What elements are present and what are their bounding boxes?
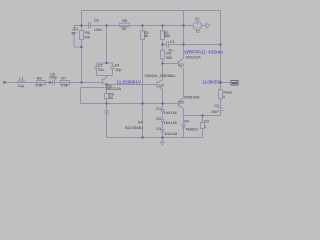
- svg-text:Q1: Q1: [179, 63, 184, 67]
- capacitor C8 plates: [53, 80, 55, 86]
- svg-text:47k: 47k: [84, 35, 90, 39]
- svg-text:10µ: 10µ: [18, 84, 25, 88]
- svg-text:D4: D4: [115, 63, 120, 67]
- svg-text:1n: 1n: [71, 31, 75, 35]
- svg-text:Q2: Q2: [179, 100, 184, 104]
- wire bias pair bottom link: [74, 46, 82, 48]
- svg-text:11.026891V: 11.026891V: [117, 80, 142, 85]
- wire Q1 collector column: [183, 11, 185, 59]
- svg-text:C2: C2: [214, 104, 219, 108]
- wire top rail: [82, 10, 221, 12]
- svg-text:C1: C1: [74, 27, 79, 31]
- wire right column mid: [220, 99, 222, 109]
- svg-text:2.2k: 2.2k: [61, 84, 68, 88]
- wire R5 bottom stub: [202, 129, 204, 138]
- svg-text:100n: 100n: [94, 28, 102, 32]
- wire left feedback column lower: [81, 40, 83, 83]
- svg-text:560: 560: [164, 34, 170, 38]
- wire Q3 collector column upper: [162, 64, 164, 81]
- svg-text:1: 1: [204, 125, 206, 129]
- wire between D2 D3: [162, 122, 164, 129]
- wire R1 column: [142, 26, 144, 32]
- diode D2: [161, 119, 165, 122]
- resistor R2 560: [161, 31, 165, 40]
- wire collector node column top: [106, 26, 108, 64]
- wire R2-R3 column: [162, 26, 164, 32]
- resistor R1 3k: [141, 31, 145, 40]
- wire left feedback column upper: [81, 11, 83, 31]
- svg-text:5: 5: [223, 95, 225, 99]
- ground right of V1: [206, 23, 210, 28]
- svg-text:Q3: Q3: [159, 84, 164, 88]
- wire ground stub: [162, 138, 164, 143]
- svg-text:R9: R9: [37, 77, 42, 81]
- svg-text:2N5109G: 2N5109G: [184, 96, 200, 100]
- svg-text:56: 56: [109, 96, 113, 100]
- resistor R8 56: [105, 94, 109, 99]
- wire collector pair left bottom: [96, 69, 98, 76]
- wire R1 column lower: [142, 40, 144, 138]
- inductor L1: [18, 81, 26, 83]
- diode D3: [161, 129, 165, 132]
- svg-text:10µ: 10µ: [115, 68, 122, 72]
- svg-text:R5: R5: [122, 19, 127, 23]
- ground bottom: [160, 142, 164, 145]
- svg-text:in: in: [3, 80, 7, 85]
- resistor R7 2.2k: [61, 81, 70, 85]
- svg-text:TA8819: TA8819: [185, 127, 198, 131]
- capacitor C6 plates: [89, 22, 91, 29]
- wire cap branch top stub: [73, 26, 75, 30]
- svg-text:R2: R2: [204, 120, 209, 124]
- svg-text:2N2222A: 2N2222A: [185, 56, 201, 60]
- wire C2 bottom stub: [220, 111, 222, 116]
- svg-text:2.2k: 2.2k: [35, 83, 42, 87]
- wire mid row y44 right: [169, 44, 221, 46]
- resistor R5b 1: [201, 123, 205, 129]
- wire base rail y103: [81, 103, 179, 105]
- wire left lower rect column: [80, 88, 82, 104]
- wire mid row y44 left: [163, 44, 167, 46]
- wire collector pair left stub: [96, 63, 98, 67]
- svg-text:560: 560: [166, 56, 172, 60]
- svg-text:V1: V1: [195, 17, 200, 21]
- wire R5 column: [202, 116, 204, 123]
- node dots: [49, 25, 222, 139]
- wire out stub: [221, 82, 232, 84]
- capacitor C5 plates: [94, 67, 99, 69]
- diode D1: [161, 109, 165, 112]
- zener D5: [104, 111, 109, 115]
- svg-text:C5: C5: [98, 63, 103, 67]
- capacitor C1 5n plates: [167, 42, 169, 48]
- transistor Q3: [157, 80, 163, 89]
- transistor Q1: [178, 59, 183, 69]
- wire right column upper: [220, 11, 222, 90]
- wire R2-R3 column mid: [162, 40, 164, 51]
- wire rect top row: [81, 87, 107, 89]
- svg-text:D3: D3: [156, 127, 161, 131]
- svg-text:D4: D4: [138, 120, 143, 124]
- resistor R9 2.2k: [37, 81, 46, 85]
- wire Q2 emitter column: [183, 109, 185, 116]
- svg-text:1N4148: 1N4148: [164, 121, 177, 125]
- svg-text:R7: R7: [61, 76, 66, 80]
- resistor R3 560: [161, 50, 165, 59]
- resistor Rload: [219, 90, 223, 99]
- wire R8 to rail stub: [106, 99, 108, 111]
- svg-text:L1: L1: [19, 76, 23, 80]
- wire emitter row y115: [184, 115, 221, 117]
- svg-text:out: out: [232, 81, 238, 85]
- wire supply row y25: [74, 25, 194, 27]
- transistor Q2: [178, 98, 183, 109]
- svg-text:100p: 100p: [49, 75, 57, 79]
- wire Q3 emitter column: [162, 89, 164, 108]
- wire Q5 collector stub: [106, 76, 108, 78]
- wire cap branch bottom stub: [73, 33, 75, 48]
- svg-text:55n: 55n: [212, 110, 218, 114]
- svg-text:BZX384B1: BZX384B1: [125, 126, 143, 130]
- wire Q3 base row: [107, 84, 157, 86]
- svg-text:2N2222A: 2N2222A: [106, 87, 122, 91]
- svg-text:Rload: Rload: [224, 90, 233, 94]
- wire collector pair right stub: [112, 63, 114, 67]
- svg-text:12: 12: [196, 30, 200, 34]
- wire between D1 D2: [162, 112, 164, 119]
- svg-text:11.08VDC: 11.08VDC: [202, 80, 221, 85]
- wire collector pair row: [97, 62, 113, 64]
- capacitor C2 plates: [218, 108, 224, 111]
- diode R4 below Q2: [182, 124, 186, 127]
- port out: [231, 81, 238, 86]
- svg-text:3k: 3k: [144, 34, 148, 38]
- voltage source V1: [193, 21, 201, 29]
- svg-text:R4: R4: [184, 119, 189, 123]
- svg-text:10n: 10n: [98, 68, 104, 72]
- wire collector pair right bottom: [112, 69, 114, 76]
- svg-text:1N4148: 1N4148: [164, 111, 177, 115]
- wire R2-R3 column lower: [162, 59, 164, 64]
- wire R4 bottom stub: [183, 128, 185, 138]
- svg-text:C1: C1: [170, 40, 175, 44]
- svg-text:2N5641_G8R88LL: 2N5641_G8R88LL: [145, 74, 177, 78]
- svg-text:50: 50: [122, 27, 126, 31]
- wire Q1 emitter to Q2 collector: [183, 69, 185, 98]
- svg-text:D2: D2: [156, 117, 161, 121]
- resistor R5 50: [120, 23, 130, 27]
- capacitor D4 plates: [110, 67, 115, 69]
- wire input row: [9, 82, 103, 84]
- svg-text:D1: D1: [156, 107, 161, 111]
- transistor Q5: [102, 78, 106, 85]
- wire R4 top stub: [183, 116, 185, 125]
- wire R8 top stub: [106, 85, 108, 94]
- wire D3 bottom: [162, 132, 164, 138]
- capacitor C1 bias plates: [72, 30, 77, 33]
- resistor R6 47k bias: [80, 31, 84, 40]
- wire zener bottom: [106, 114, 108, 138]
- wire V1 right stub: [202, 25, 206, 27]
- svg-text:1N4148: 1N4148: [164, 132, 177, 136]
- svg-text:V(RFPA1): 432mA: V(RFPA1): 432mA: [184, 49, 224, 55]
- wire bottom rail: [107, 137, 203, 139]
- wire collector join row: [97, 75, 113, 77]
- svg-text:C6: C6: [94, 19, 99, 23]
- wire Q1 base row: [163, 63, 179, 65]
